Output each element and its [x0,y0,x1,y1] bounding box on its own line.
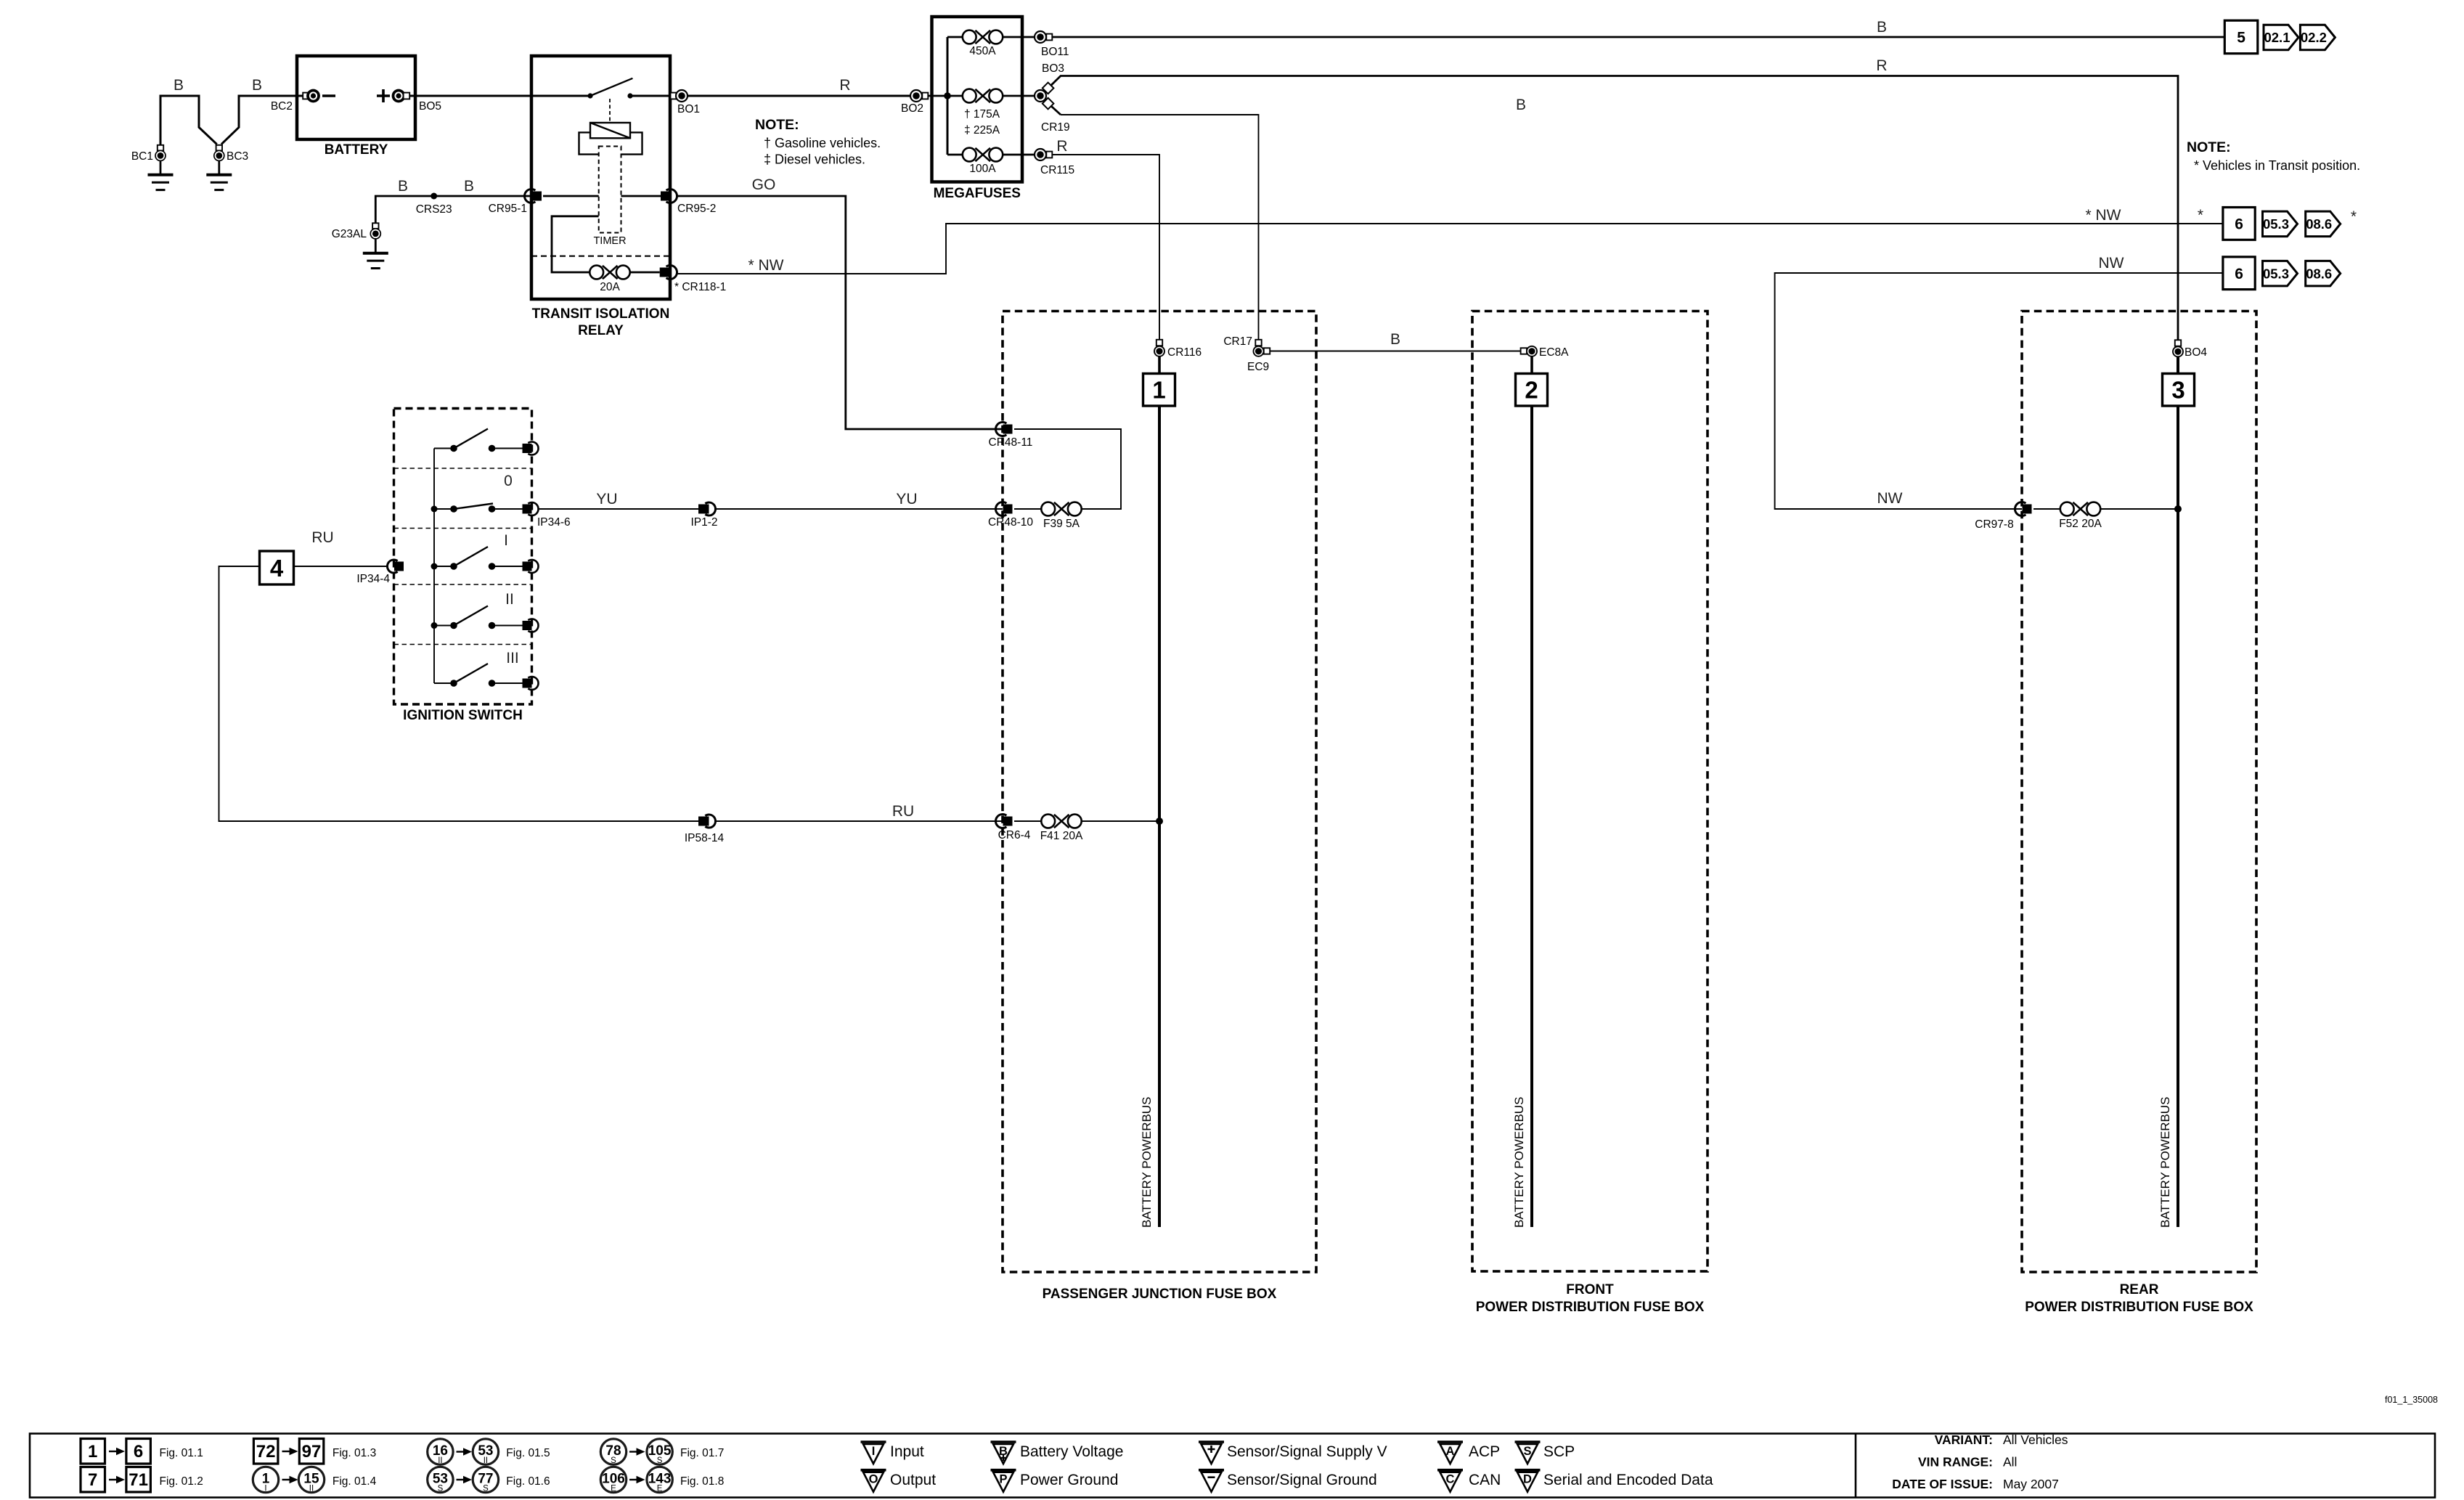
wire CR97-8 to F52 to powerbus [2033,508,2060,510]
connector IP34-4 [387,560,397,573]
svg-text:BATTERY POWERBUS: BATTERY POWERBUS [1512,1097,1526,1228]
front power distribution fuse box [1472,311,1708,1272]
svg-text:BATTERY POWERBUS: BATTERY POWERBUS [1140,1097,1154,1228]
fuse F41 20A [1041,815,1055,828]
svg-text:YU: YU [896,491,917,508]
svg-text:450A: 450A [969,45,996,57]
svg-text:Sensor/Signal Supply V: Sensor/Signal Supply V [1227,1443,1387,1460]
svg-text:YU: YU [596,491,617,508]
svg-text:SCP: SCP [1543,1443,1575,1460]
svg-text:BATTERY POWERBUS: BATTERY POWERBUS [2158,1097,2172,1228]
svg-text:BC1: BC1 [131,150,153,163]
wire RU ref4 to IP58-14 to CR6-4 [219,566,699,821]
ref pentagon 08.6 transit [2306,211,2341,237]
ignition switch rowI [434,566,454,567]
fuse 450A [963,30,976,44]
svg-text:† Gasoline vehicles.: † Gasoline vehicles. [764,136,881,150]
svg-text:All Vehicles: All Vehicles [2003,1432,2068,1447]
legend output symbol [861,1469,886,1472]
svg-text:III: III [506,650,519,667]
svg-text:CR116: CR116 [1167,346,1202,359]
rear power distribution fuse box [2022,311,2256,1273]
battery powerbus rear [2177,406,2179,1227]
legend fig 01.2 [81,1467,105,1493]
svg-text:BO4: BO4 [2184,346,2207,359]
svg-text:RU: RU [892,803,914,820]
svg-text:B: B [464,178,474,195]
wire CR48-10 to F39 [1014,508,1041,510]
svg-text:All: All [2003,1455,2017,1470]
junction dot F52 powerbus [2174,505,2182,513]
svg-text:CR6-4: CR6-4 [998,829,1031,841]
connector CR48-11 [995,423,1006,436]
svg-text:EC9: EC9 [1247,361,1269,373]
svg-text:NW: NW [2099,255,2124,272]
svg-text:4: 4 [270,555,284,582]
wire CR95-1 to CR95-2 internal [543,195,661,197]
svg-text:IP58-14: IP58-14 [685,832,725,844]
connector CR115 [1035,149,1046,160]
wire megafuse row 450A [947,36,963,38]
svg-text:Fig. 01.8: Fig. 01.8 [680,1475,724,1488]
connector CR97-8 [2015,502,2026,516]
svg-text:F41 20A: F41 20A [1040,830,1083,842]
svg-text:1: 1 [88,1442,97,1462]
ref box 2 [1516,374,1548,407]
connector BO2 [910,90,922,102]
svg-text:BATTERY: BATTERY [325,142,388,158]
junction dot CRS23 [431,193,437,200]
wire megafuse row 175A [910,95,963,97]
legend sensor ground symbol [1199,1469,1224,1472]
legend fig 01.3 [253,1439,278,1464]
connector CR116 [1156,340,1162,346]
passenger junction fuse box [1003,311,1316,1273]
svg-text:POWER DISTRIBUTION FUSE BOX: POWER DISTRIBUTION FUSE BOX [1476,1300,1705,1315]
transit isolation relay box [531,56,670,299]
svg-text:‡ Diesel vehicles.: ‡ Diesel vehicles. [764,152,865,167]
connector BO11 [1035,31,1046,43]
wire CR116 to ref 1 [1158,356,1161,374]
svg-text:R: R [1056,138,1067,155]
junction dot F41 powerbus [1156,818,1163,825]
svg-text:B: B [174,77,184,94]
svg-text:B: B [398,178,408,195]
svg-text:BC3: BC3 [227,150,248,163]
wire R BO3 to BO4 [1045,76,2178,341]
svg-text:EC8A: EC8A [1539,346,1569,359]
svg-text:Fig. 01.6: Fig. 01.6 [506,1475,550,1488]
svg-text:BC2: BC2 [271,100,293,113]
svg-text:CR19: CR19 [1041,121,1070,134]
wire battery BO5 to relay [409,95,531,97]
wire RU ref4 to IP34-4 [294,566,388,567]
svg-text:6: 6 [2235,216,2243,232]
svg-text:B: B [1516,97,1526,113]
connector IP1-2 [698,505,709,514]
fuse 175A/225A [963,89,976,103]
svg-text:RU: RU [311,529,333,546]
connector CR118-1 [666,266,677,280]
fuse 20A relay [590,266,603,280]
svg-text:Power Ground: Power Ground [1020,1472,1118,1488]
battery powerbus front [1530,406,1533,1228]
svg-text:CR48-11: CR48-11 [989,436,1033,449]
svg-text:* NW: * NW [748,257,784,274]
svg-text:100A: 100A [969,163,996,175]
wire B EC9 to EC8A [1263,351,1521,352]
legend battery voltage symbol [991,1440,1016,1443]
svg-text:CAN: CAN [1469,1472,1501,1488]
ref box 4 [260,551,294,584]
wire BO4 to ref 3 [2177,356,2179,374]
connector CR6-4 [995,815,1006,828]
ignition switch rowII [434,625,454,627]
svg-text:CRS23: CRS23 [416,203,452,216]
svg-text:S: S [657,1456,663,1465]
svg-text:S: S [483,1484,489,1493]
connector CR95-2 [666,189,677,203]
svg-text:C: C [1446,1473,1455,1486]
svg-text:REAR: REAR [2120,1282,2159,1297]
connector CR95-1 [524,189,535,203]
svg-text:f01_1_35008: f01_1_35008 [2385,1395,2438,1405]
svg-text:TRANSIT ISOLATION: TRANSIT ISOLATION [532,306,670,322]
wire relay internal L to 20A fuse [552,216,599,272]
svg-text:7: 7 [88,1470,97,1490]
legend fig 01.4 [253,1467,278,1492]
svg-text:I: I [264,1484,266,1493]
svg-text:S: S [1523,1445,1531,1458]
wire EC8A to ref 2 [1530,356,1533,374]
svg-text:BO3: BO3 [1042,62,1064,75]
ignition switch row0 [434,448,454,449]
legend fig 01.7 [600,1439,626,1464]
legend serial data symbol [1515,1469,1541,1472]
svg-text:72: 72 [256,1442,276,1462]
svg-text:B: B [1390,331,1400,348]
legend divider [1855,1434,1857,1498]
svg-text:CR95-1: CR95-1 [489,203,527,215]
legend fig 01.6 [428,1467,453,1492]
ground G23AL [372,223,378,229]
svg-text:Fig. 01.1: Fig. 01.1 [160,1447,203,1459]
ground BC3 [216,145,222,151]
wire 20A fuse to CR118-1 [629,272,660,274]
svg-text:1: 1 [1152,377,1165,404]
svg-text:05.3: 05.3 [2263,266,2289,281]
junction dots ignition bus [431,506,438,513]
svg-text:I: I [872,1445,876,1458]
svg-text:G23AL: G23AL [332,228,367,240]
ref box 6 [2223,257,2255,290]
legend power ground symbol [991,1469,1016,1472]
junction dot megafuse bus [944,92,951,99]
svg-text:Serial and Encoded Data: Serial and Encoded Data [1543,1472,1713,1488]
legend fig 01.5 [428,1439,453,1464]
wire B G23AL to CR95-1 [375,196,531,223]
svg-text:BO5: BO5 [419,100,441,113]
svg-text:08.6: 08.6 [2306,216,2332,232]
svg-text:Fig. 01.5: Fig. 01.5 [506,1447,550,1459]
wire NW ref6 to CR97-8 [1775,273,2223,509]
svg-text:IP34-4: IP34-4 [356,573,390,585]
svg-text:E: E [657,1484,663,1493]
svg-text:05.3: 05.3 [2263,216,2289,232]
ignition switch box [394,409,532,705]
svg-text:B: B [252,77,262,94]
battery powerbus passenger [1158,406,1161,1228]
svg-text:A: A [1446,1445,1455,1458]
ground BC1 [158,145,163,151]
ref box 3 [2163,374,2195,407]
svg-text:Fig. 01.4: Fig. 01.4 [333,1475,377,1488]
svg-text:Sensor/Signal Ground: Sensor/Signal Ground [1227,1472,1377,1488]
connector BO1 [671,93,677,99]
svg-text:6: 6 [2235,266,2243,282]
svg-text:Fig. 01.2: Fig. 01.2 [160,1475,203,1488]
ref pentagon 02.1 [2264,25,2298,50]
wire B BO11 to ref 5 [1053,36,2225,38]
ref box 1 [1143,374,1175,407]
connector CR48-10 [995,502,1006,516]
legend CAN symbol [1437,1469,1463,1472]
svg-text:DATE OF ISSUE:: DATE OF ISSUE: [1892,1477,1993,1491]
battery [297,56,415,139]
svg-text:GO: GO [752,176,776,193]
svg-text:71: 71 [128,1470,148,1490]
svg-text:F39 5A: F39 5A [1043,518,1080,530]
svg-text:NW: NW [1877,490,1903,507]
megafuses box [932,17,1023,182]
relay switch [587,93,592,98]
wire *NW CR118-1 to ref 6 [677,224,2223,274]
svg-text:CR97-8: CR97-8 [1975,518,2013,531]
legend fig 01.8 [600,1467,626,1492]
svg-text:5: 5 [2237,30,2245,46]
connector EC8A [1521,348,1527,354]
svg-text:F52 20A: F52 20A [2059,518,2102,530]
wire CR48-11 loop to F39 [1014,429,1121,509]
svg-text:R: R [1876,57,1887,74]
svg-text:IGNITION SWITCH: IGNITION SWITCH [403,708,523,723]
svg-text:VIN RANGE:: VIN RANGE: [1918,1455,1993,1470]
connector IP58-14 [698,817,709,826]
svg-text:O: O [869,1473,878,1486]
relay dashed separator [531,256,670,257]
svg-text:02.2: 02.2 [2301,30,2327,45]
legend fig 01.1 [81,1439,105,1464]
svg-text:* CR118-1: * CR118-1 [674,281,726,293]
svg-text:II: II [309,1484,314,1493]
connector CR17 EC9 [1255,340,1261,346]
ref box 5 [2224,20,2258,53]
svg-text:Fig. 01.3: Fig. 01.3 [333,1447,376,1459]
svg-text:PASSENGER JUNCTION FUSE BOX: PASSENGER JUNCTION FUSE BOX [1043,1287,1277,1302]
svg-text:97: 97 [302,1442,322,1462]
svg-text:02.1: 02.1 [2264,30,2290,45]
wire relay internal contact row [531,95,588,97]
wire R CR115 to CR116 [1053,155,1160,340]
svg-text:S: S [611,1456,616,1465]
svg-text:RELAY: RELAY [578,323,624,338]
legend box [30,1434,2435,1498]
svg-text:R: R [839,77,850,94]
ignition switch rowIII [434,682,454,684]
svg-text:TIMER: TIMER [593,235,626,247]
timer dashed box [599,147,621,233]
svg-text:Fig. 01.7: Fig. 01.7 [680,1447,724,1459]
wire R BO1 to BO2 [688,95,911,97]
svg-text:BO2: BO2 [901,102,923,115]
svg-text:*: * [2351,208,2357,225]
svg-text:Battery Voltage: Battery Voltage [1020,1443,1123,1460]
svg-text:6: 6 [134,1442,143,1462]
svg-text:II: II [505,591,514,608]
legend input symbol [861,1440,886,1443]
fuse F52 20A [2060,502,2074,516]
svg-text:POWER DISTRIBUTION FUSE BOX: POWER DISTRIBUTION FUSE BOX [2025,1300,2253,1315]
ref pentagon 08.6 [2306,261,2341,286]
fuse 100A [963,148,976,162]
wire CR6-4 to F41 to powerbus [1014,820,1041,822]
svg-text:0: 0 [504,473,513,489]
svg-text:Output: Output [890,1472,936,1488]
svg-text:Input: Input [890,1443,924,1460]
svg-text:‡ 225A: ‡ 225A [964,124,1000,136]
ref pentagon 05.3 [2263,261,2298,286]
wire GO CR95-2 to CR48-11 [677,196,1003,429]
svg-text:I: I [504,532,508,549]
svg-text:BO11: BO11 [1041,46,1069,58]
wire B CR19 to CR17 [1045,100,1061,115]
svg-text:May 2007: May 2007 [2003,1477,2059,1491]
svg-text:BO1: BO1 [677,103,700,115]
svg-text:ACP: ACP [1469,1443,1500,1460]
ignition bus [433,449,435,684]
legend SCP symbol [1515,1440,1541,1443]
svg-text:*: * [2198,207,2203,224]
svg-text:3: 3 [2171,377,2184,404]
svg-text:NOTE:: NOTE: [2187,139,2231,155]
wire B ground branch BC1/BC3 [160,96,217,145]
svg-text:MEGAFUSES: MEGAFUSES [934,186,1021,201]
svg-text:FRONT: FRONT [1566,1282,1614,1297]
wire megafuse row 100A [947,154,963,156]
legend ACP symbol [1437,1440,1463,1443]
svg-text:P: P [999,1473,1007,1486]
svg-text:E: E [611,1484,616,1493]
svg-text:CR17: CR17 [1223,335,1252,348]
svg-text:2: 2 [1525,377,1538,404]
ref pentagon 02.2 [2300,25,2335,50]
connector BO4 [2175,340,2181,346]
svg-text:CR115: CR115 [1040,164,1074,176]
svg-text:08.6: 08.6 [2306,266,2332,281]
relay coil [590,123,630,138]
wire YU IP34-6 to IP1-2 to CR48-10 [539,508,699,510]
svg-text:S: S [438,1484,444,1493]
ignition section separators [394,468,532,469]
svg-text:VARIANT:: VARIANT: [1935,1432,1993,1447]
svg-text:IP34-6: IP34-6 [537,516,571,529]
wire megafuse bus [947,37,949,155]
svg-text:20A: 20A [600,281,620,293]
svg-text:D: D [1523,1473,1532,1486]
ref pentagon 05.3 transit [2263,211,2298,237]
svg-text:II: II [484,1456,488,1465]
svg-text:NOTE:: NOTE: [755,117,799,133]
svg-text:CR95-2: CR95-2 [677,203,716,215]
ignition switch row1 [434,508,454,510]
svg-text:* NW: * NW [2086,207,2121,224]
svg-text:IP1-2: IP1-2 [690,516,717,529]
ref box 6 transit [2223,208,2255,240]
svg-text:II: II [438,1456,442,1465]
svg-text:B: B [1877,19,1887,36]
connector CR19 with diamonds [1035,90,1046,102]
legend sensor supply symbol [1199,1440,1224,1443]
svg-text:* Vehicles in Transit positio: * Vehicles in Transit position. [2194,158,2360,173]
svg-text:CR48-10: CR48-10 [988,516,1033,529]
svg-text:† 175A: † 175A [964,108,1000,121]
fuse F39 5A [1041,502,1055,516]
